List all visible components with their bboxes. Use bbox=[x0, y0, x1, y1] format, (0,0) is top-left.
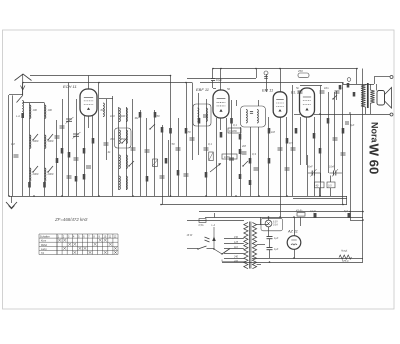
capacitor bbox=[264, 76, 268, 78]
resistor 1M bbox=[222, 154, 237, 159]
wire bbox=[260, 217, 262, 225]
coil bbox=[206, 108, 207, 121]
wire bbox=[212, 81, 214, 89]
coil bbox=[30, 105, 31, 118]
capacitor 10nF bbox=[205, 237, 210, 239]
wire bbox=[88, 76, 90, 90]
svg-text:0,1µF: 0,1µF bbox=[310, 211, 317, 213]
svg-text:0,1: 0,1 bbox=[208, 142, 212, 146]
junction bbox=[319, 195, 321, 197]
svg-text:1M: 1M bbox=[271, 130, 276, 134]
coil bbox=[22, 101, 23, 117]
junction bbox=[235, 195, 237, 197]
svg-text:0,1: 0,1 bbox=[233, 123, 237, 127]
svg-text:125: 125 bbox=[234, 241, 239, 244]
wire bbox=[224, 248, 244, 250]
trimmer capacitor bbox=[153, 159, 158, 167]
wire bbox=[170, 76, 172, 197]
wire bbox=[314, 117, 316, 196]
svg-text:100: 100 bbox=[110, 114, 115, 118]
wire bbox=[320, 114, 390, 116]
resistor bbox=[268, 128, 271, 134]
switch contact bbox=[243, 161, 248, 166]
speaker bbox=[377, 91, 385, 106]
wire bbox=[320, 86, 322, 197]
junction bbox=[258, 195, 260, 197]
capacitor bbox=[211, 78, 215, 80]
svg-text:10n: 10n bbox=[324, 86, 329, 90]
bracket bbox=[222, 260, 246, 262]
capacitor bbox=[333, 137, 338, 139]
wire bbox=[346, 196, 348, 205]
ground bbox=[11, 196, 13, 203]
svg-text:TA: TA bbox=[41, 252, 44, 255]
antenna switch bbox=[17, 95, 23, 102]
wire bbox=[213, 88, 216, 90]
wire bbox=[350, 220, 363, 222]
coil bbox=[126, 155, 127, 169]
wire bbox=[22, 83, 24, 96]
resistor bbox=[268, 158, 271, 164]
resistor grid stopper bbox=[298, 73, 309, 78]
coil bbox=[30, 135, 31, 148]
mains switch blade bbox=[198, 246, 207, 249]
svg-text:EM 11: EM 11 bbox=[262, 88, 273, 93]
svg-text:W 60: W 60 bbox=[367, 144, 382, 175]
wire bbox=[350, 114, 352, 220]
junction bbox=[221, 253, 222, 254]
svg-text:Mittel: Mittel bbox=[41, 244, 47, 247]
wire bbox=[112, 96, 114, 196]
wire bbox=[269, 250, 271, 258]
wire bbox=[268, 227, 270, 237]
resistor bbox=[83, 174, 86, 180]
pilot lamp box bbox=[261, 218, 283, 231]
mains switch line bbox=[187, 248, 198, 250]
capacitor bbox=[67, 175, 72, 177]
svg-text:575 Ω: 575 Ω bbox=[342, 260, 349, 263]
wire bbox=[216, 118, 218, 196]
resistor bbox=[347, 83, 350, 88]
wire bbox=[268, 117, 270, 196]
capacitor bbox=[145, 149, 150, 151]
wire bbox=[186, 83, 188, 197]
coil bbox=[45, 135, 46, 148]
page border frame bbox=[3, 30, 395, 309]
wire bbox=[258, 127, 260, 196]
resistor bbox=[146, 176, 149, 182]
wire bbox=[300, 85, 322, 87]
resistor bbox=[28, 182, 31, 188]
svg-text:50: 50 bbox=[172, 142, 176, 146]
svg-text:1MΩ: 1MΩ bbox=[224, 155, 230, 159]
wire bbox=[62, 99, 64, 196]
wire bbox=[268, 217, 270, 220]
tube EBF 11 bbox=[213, 90, 229, 118]
wire bbox=[314, 114, 320, 116]
svg-text:5µF: 5µF bbox=[344, 211, 349, 213]
junction bbox=[22, 82, 24, 84]
coil bbox=[246, 110, 247, 123]
junction bbox=[98, 195, 100, 197]
junction bbox=[286, 195, 288, 197]
junction bbox=[132, 195, 134, 197]
junction bbox=[293, 257, 295, 259]
wire bbox=[23, 102, 45, 104]
variable capacitor bbox=[73, 133, 79, 135]
capacitor bbox=[278, 147, 283, 149]
capacitor bbox=[229, 157, 234, 159]
resistor bbox=[177, 170, 180, 176]
capacitor 10nF bbox=[329, 172, 333, 174]
coil bbox=[30, 168, 31, 181]
wire bbox=[300, 117, 302, 165]
wire bbox=[307, 173, 309, 196]
resistor bbox=[319, 148, 322, 154]
wire bbox=[126, 107, 128, 190]
mains line bbox=[187, 220, 244, 222]
svg-text:250: 250 bbox=[297, 69, 303, 73]
capacitor bbox=[242, 151, 247, 153]
wire bbox=[213, 68, 357, 70]
svg-text:50nF: 50nF bbox=[307, 166, 313, 169]
svg-text:EBF 11: EBF 11 bbox=[196, 87, 209, 92]
wire bbox=[98, 83, 100, 197]
capacitor bbox=[291, 147, 296, 149]
resistor bbox=[249, 158, 252, 164]
fuse bbox=[199, 219, 206, 223]
wire bbox=[162, 125, 164, 205]
svg-text:AZ 11: AZ 11 bbox=[287, 230, 298, 234]
svg-text:100: 100 bbox=[48, 108, 53, 112]
coil bbox=[119, 155, 120, 169]
wire bbox=[99, 98, 113, 100]
wire bbox=[9, 94, 23, 96]
trimmer bbox=[347, 78, 351, 82]
resistor Ausgl bbox=[339, 255, 351, 259]
capacitor bbox=[348, 213, 351, 218]
switch contact bbox=[33, 134, 38, 140]
wire bbox=[374, 76, 390, 78]
wire bbox=[336, 91, 338, 100]
junction bbox=[268, 216, 270, 218]
resistor bbox=[75, 176, 78, 182]
terminal bbox=[390, 113, 393, 116]
wire bbox=[76, 99, 78, 196]
wire bbox=[330, 176, 332, 183]
resistor box bbox=[315, 182, 325, 188]
svg-text:2M: 2M bbox=[241, 144, 247, 148]
junction bbox=[342, 204, 344, 206]
wire bbox=[236, 100, 238, 106]
wire bbox=[269, 239, 271, 248]
svg-text:1000: 1000 bbox=[33, 139, 39, 143]
wire bbox=[226, 118, 228, 196]
svg-text:10nF: 10nF bbox=[329, 166, 335, 169]
wire bbox=[365, 107, 367, 114]
wire bbox=[356, 69, 358, 85]
capacitor bbox=[14, 154, 19, 156]
wire bbox=[146, 118, 148, 196]
svg-text:L.A: L.A bbox=[212, 224, 216, 227]
resistor 47k bbox=[297, 213, 305, 217]
junction bbox=[212, 68, 214, 70]
junction bbox=[362, 219, 364, 221]
junction bbox=[170, 195, 172, 197]
wire bbox=[23, 82, 192, 84]
svg-text:3M: 3M bbox=[135, 116, 140, 120]
pilot lamp bbox=[265, 220, 272, 227]
potentiometer arrow bbox=[210, 164, 220, 172]
switch contact bbox=[48, 134, 53, 140]
capacitor bbox=[345, 121, 349, 123]
wire bbox=[199, 211, 363, 213]
wire bbox=[212, 69, 214, 79]
coil bbox=[126, 176, 127, 189]
svg-text:Schalter: Schalter bbox=[40, 235, 50, 239]
svg-text:1µF: 1µF bbox=[274, 248, 279, 251]
svg-text:0,3: 0,3 bbox=[252, 152, 256, 156]
resistor bbox=[161, 127, 164, 133]
wire bbox=[300, 217, 302, 226]
wire bbox=[342, 83, 344, 205]
svg-text:Kurz: Kurz bbox=[41, 240, 47, 243]
svg-text:ZF=468/472 kHz: ZF=468/472 kHz bbox=[54, 217, 88, 222]
terminal bbox=[390, 76, 393, 79]
coil bbox=[126, 130, 127, 144]
resistor bbox=[205, 172, 208, 178]
capacitor 50nF bbox=[308, 172, 312, 174]
wire bbox=[8, 95, 10, 196]
wire bbox=[44, 103, 46, 196]
wire bbox=[224, 253, 244, 255]
wire bbox=[266, 74, 268, 92]
wire bbox=[207, 248, 215, 250]
svg-text:Lang: Lang bbox=[41, 248, 47, 251]
coil bbox=[126, 108, 127, 122]
junction bbox=[349, 112, 351, 114]
junction bbox=[293, 216, 295, 218]
svg-text:0,5: 0,5 bbox=[328, 185, 332, 188]
wire bbox=[200, 82, 343, 84]
wire bbox=[370, 103, 372, 114]
junction bbox=[362, 211, 364, 213]
wire bbox=[30, 75, 171, 77]
svg-text:L.A: L.A bbox=[16, 114, 20, 118]
svg-text:18 W: 18 W bbox=[187, 234, 193, 237]
wire bbox=[56, 120, 58, 196]
wire bbox=[320, 173, 322, 182]
svg-text:110: 110 bbox=[234, 246, 238, 249]
svg-text:350: 350 bbox=[110, 137, 115, 141]
wire bbox=[224, 243, 244, 245]
junction bbox=[342, 82, 344, 84]
svg-text:Ausgl.: Ausgl. bbox=[340, 250, 348, 253]
junction bbox=[319, 113, 321, 115]
capacitor 1uF bbox=[267, 247, 273, 249]
capacitor bbox=[184, 173, 189, 175]
svg-text:1000: 1000 bbox=[48, 139, 54, 143]
antenna bbox=[15, 74, 32, 81]
svg-text:2000: 2000 bbox=[47, 172, 54, 176]
capacitor bbox=[131, 147, 136, 149]
svg-text:5n: 5n bbox=[296, 86, 300, 90]
wire bbox=[362, 69, 364, 263]
wire bbox=[319, 188, 321, 196]
capacitor bbox=[60, 125, 65, 127]
junction bbox=[269, 261, 271, 263]
svg-text:50: 50 bbox=[227, 87, 231, 91]
wire bbox=[376, 84, 378, 91]
capacitor bbox=[74, 157, 79, 159]
wire bbox=[214, 249, 222, 254]
svg-text:70: 70 bbox=[188, 130, 192, 134]
capacitor bbox=[190, 137, 195, 139]
junction bbox=[98, 82, 100, 84]
tube EM 11 bbox=[273, 92, 287, 117]
wire bbox=[88, 116, 90, 128]
wire bbox=[252, 258, 363, 260]
svg-text:240: 240 bbox=[233, 255, 239, 258]
wire bbox=[118, 107, 120, 190]
wire bbox=[257, 244, 265, 246]
svg-text:350: 350 bbox=[121, 137, 126, 141]
wire bbox=[161, 204, 347, 206]
junction bbox=[205, 195, 207, 197]
svg-text:0,3A: 0,3A bbox=[273, 224, 278, 227]
wire bbox=[205, 217, 363, 219]
svg-text:ECH 11: ECH 11 bbox=[63, 84, 77, 89]
junction bbox=[33, 195, 35, 197]
capacitor bbox=[55, 135, 60, 137]
wire bbox=[334, 92, 336, 171]
resistor box bbox=[327, 182, 335, 188]
junction bbox=[279, 216, 281, 218]
resistor bbox=[139, 112, 142, 118]
output transformer bbox=[361, 85, 366, 107]
resistor bbox=[249, 180, 252, 185]
coil bbox=[119, 130, 120, 144]
junction bbox=[160, 204, 162, 206]
wire bbox=[250, 127, 252, 196]
capacitor bbox=[160, 175, 165, 177]
wire bbox=[328, 92, 330, 173]
svg-text:2000: 2000 bbox=[32, 172, 39, 176]
resistor bbox=[61, 148, 64, 154]
wire bbox=[257, 224, 261, 226]
wire bbox=[374, 77, 376, 84]
IF transformer can bbox=[193, 104, 211, 126]
trimmer bbox=[264, 71, 268, 75]
wire bbox=[106, 99, 108, 160]
coil bbox=[119, 176, 120, 189]
resistor bbox=[239, 149, 242, 154]
junction bbox=[279, 68, 281, 70]
capacitor 1uF bbox=[267, 236, 273, 238]
capacitor bbox=[254, 167, 259, 169]
svg-text:1µF: 1µF bbox=[274, 237, 279, 240]
resistor bbox=[165, 158, 168, 164]
resistor bbox=[209, 152, 214, 161]
wire bbox=[140, 110, 142, 196]
resistor bbox=[286, 138, 289, 144]
svg-text:150: 150 bbox=[234, 236, 239, 239]
resistor bbox=[239, 134, 242, 140]
switch contact bbox=[122, 138, 127, 143]
switch contact bbox=[33, 166, 38, 172]
wire bbox=[214, 213, 216, 218]
capacitor bbox=[176, 147, 181, 149]
svg-text:100: 100 bbox=[121, 114, 126, 118]
selector blade bbox=[222, 249, 230, 255]
junction bbox=[213, 248, 215, 250]
resistor bbox=[313, 133, 316, 139]
wire bbox=[192, 83, 194, 161]
coil bbox=[119, 108, 120, 122]
wire bbox=[330, 188, 332, 196]
wire bbox=[92, 116, 94, 196]
resistor bbox=[342, 128, 345, 134]
wire bbox=[258, 100, 260, 106]
wire bbox=[220, 118, 222, 130]
switch contact bbox=[333, 95, 337, 99]
switch contact bbox=[150, 124, 155, 129]
wire bbox=[22, 118, 24, 196]
capacitor bbox=[86, 165, 91, 167]
capacitor bbox=[298, 90, 303, 92]
wire bbox=[29, 103, 31, 196]
ground bus bbox=[9, 196, 347, 198]
svg-text:41: 41 bbox=[108, 150, 112, 154]
tube EL 11 bbox=[300, 88, 315, 117]
resistor bbox=[295, 128, 298, 134]
phono arrow bbox=[213, 227, 215, 249]
svg-text:60: 60 bbox=[101, 108, 105, 112]
junction bbox=[8, 195, 10, 197]
coil bbox=[45, 168, 46, 181]
junction bbox=[220, 68, 222, 70]
svg-text:47µF+: 47µF+ bbox=[296, 210, 303, 213]
wire bbox=[365, 84, 367, 85]
resistor bbox=[198, 118, 201, 124]
coil bbox=[103, 103, 104, 117]
wire bbox=[294, 217, 296, 236]
wire bbox=[187, 78, 256, 80]
wire bbox=[178, 118, 180, 196]
capacitor bbox=[320, 90, 325, 92]
junction bbox=[170, 75, 172, 77]
resistor bbox=[353, 92, 356, 97]
resistor bbox=[43, 182, 46, 188]
capacitor bbox=[335, 90, 340, 92]
wire bbox=[294, 114, 300, 116]
resistor bbox=[56, 158, 59, 163]
resistor bbox=[327, 118, 330, 124]
wire bbox=[84, 116, 86, 196]
wire bbox=[68, 83, 70, 197]
resistor bbox=[68, 152, 71, 158]
wire bbox=[198, 93, 200, 155]
svg-text:50: 50 bbox=[157, 114, 161, 118]
wire bbox=[154, 110, 156, 196]
wire bbox=[294, 249, 296, 258]
wire bbox=[343, 84, 374, 86]
junction bbox=[356, 68, 358, 70]
box bottom bbox=[293, 198, 347, 200]
wire bbox=[286, 117, 288, 196]
wire bbox=[206, 99, 208, 196]
wire bbox=[280, 117, 282, 217]
